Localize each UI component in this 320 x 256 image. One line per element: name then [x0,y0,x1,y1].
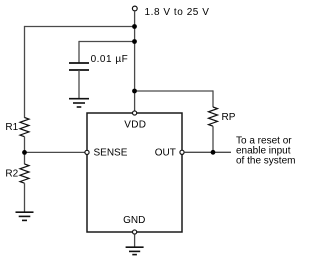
junction rail / RP branch [132,89,137,94]
junction OUT / RP [211,150,216,155]
wire RP bottom lead [212,126,214,152]
svg-text:0.01 µF: 0.01 µF [91,54,129,65]
wire top horizontal to divider [25,26,135,28]
wire GND pin to ground [134,234,136,247]
pin SENSE [85,150,89,154]
svg-text:SENSE: SENSE [94,148,128,159]
junction top rail / divider [132,24,137,29]
ground (capacitor) [69,99,89,107]
resistor RP [209,107,218,126]
wire main vertical supply rail [134,11,136,111]
supply terminal VIN [132,6,137,11]
wire RP branch horizontal [135,90,214,92]
svg-text:OUT: OUT [155,148,176,159]
resistor R2 [20,164,29,183]
resistor R1 [20,118,29,137]
wire capacitor branch horizontal [79,41,135,43]
wire R1 to R2 [24,137,26,165]
svg-text:1.8 V to 25 V: 1.8 V to 25 V [145,7,210,18]
ground (IC) [126,247,144,254]
pin GND [133,230,137,234]
pin OUT [180,150,184,154]
svg-text:R2: R2 [5,168,18,179]
svg-text:R1: R1 [5,122,18,133]
wire divider tap to SENSE [25,151,85,153]
svg-text:RP: RP [222,112,236,123]
pin VDD [133,111,137,115]
svg-text:GND: GND [123,215,145,226]
wire OUT to load [184,151,231,153]
junction divider tap [22,150,27,155]
svg-text:of the system: of the system [236,155,295,166]
wire RP top lead [212,90,214,107]
wire capacitor bottom lead [78,70,80,99]
junction rail / capacitor [132,39,137,44]
wire capacitor top lead [78,41,80,63]
wire R2 bottom lead [24,183,26,211]
capacitor C1 0.01 uF [69,63,89,70]
op-amp/supervisor IC U1 body [87,113,182,232]
wire left vertical down to R1 [24,26,26,118]
ground (divider) [16,212,34,220]
svg-text:VDD: VDD [124,120,146,131]
